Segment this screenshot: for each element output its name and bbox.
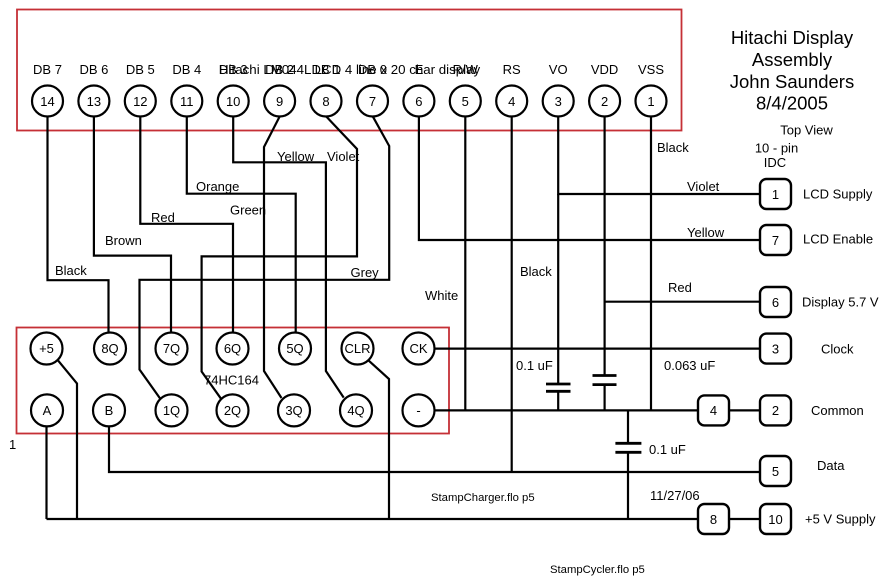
svg-text:1: 1 <box>9 437 16 452</box>
svg-text:14: 14 <box>40 94 54 109</box>
wire R/W white: pin5 to ground net <box>464 117 466 411</box>
capacitor C1 0.1 uF <box>546 384 571 391</box>
svg-text:1: 1 <box>772 187 779 202</box>
svg-text:A: A <box>43 403 52 418</box>
pin 5 circle <box>450 86 481 117</box>
svg-text:Top View: Top View <box>780 123 833 138</box>
wire VO to capacitor C1 <box>557 194 559 384</box>
wire VSS black: pin1 to ground net <box>650 117 652 411</box>
wire A to +5 net <box>45 426 47 519</box>
wire box 8 to box 10 <box>729 518 760 520</box>
svg-text:Violet: Violet <box>687 179 720 194</box>
svg-text:10: 10 <box>768 512 782 527</box>
svg-text:StampCycler.flo p5: StampCycler.flo p5 <box>550 564 645 576</box>
wire E yellow: pin6 to IDC box 7 <box>419 117 760 241</box>
svg-text:8: 8 <box>710 512 717 527</box>
svg-text:Hitachi LM044L LCD 4 line x 20: Hitachi LM044L LCD 4 line x 20 char disp… <box>219 62 480 77</box>
svg-text:2: 2 <box>601 94 608 109</box>
wire DB2 green: pin9 to 3Q <box>264 117 282 398</box>
svg-text:VSS: VSS <box>638 62 664 77</box>
pin 13 circle <box>78 86 109 117</box>
IDC connector pin box 2 <box>760 395 791 425</box>
wire ground net: minus pin to box 4 <box>434 409 698 411</box>
wire C3 to +5 net <box>627 452 629 519</box>
svg-text:Black: Black <box>520 264 552 279</box>
U1 pin 6Q <box>217 333 249 365</box>
svg-text:Grey: Grey <box>351 265 380 280</box>
pin 2 circle <box>589 86 620 117</box>
wire VDD red branch to IDC box 6 <box>605 301 760 303</box>
svg-text:+5: +5 <box>39 341 54 356</box>
svg-text:IDC: IDC <box>764 155 786 170</box>
wire RS black: pin4 to data net <box>511 117 513 473</box>
pin 11 circle <box>171 86 202 117</box>
svg-text:0.1 uF: 0.1 uF <box>516 358 553 373</box>
U1 pin CK <box>403 333 435 365</box>
svg-text:-: - <box>416 403 420 418</box>
svg-text:0.063 uF: 0.063 uF <box>664 358 715 373</box>
svg-text:Yellow: Yellow <box>687 225 725 240</box>
wire VO violet: pin3 to IDC box 1 <box>558 117 760 195</box>
svg-text:DB 6: DB 6 <box>79 62 108 77</box>
svg-text:Hitachi Display: Hitachi Display <box>731 27 854 48</box>
svg-text:VDD: VDD <box>591 62 618 77</box>
svg-text:8/4/2005: 8/4/2005 <box>756 93 828 114</box>
wire DB5 red: pin12 to 6Q <box>140 117 233 333</box>
svg-text:7Q: 7Q <box>163 341 180 356</box>
wire ground to capacitor C3 <box>627 410 629 443</box>
svg-text:6Q: 6Q <box>224 341 241 356</box>
svg-text:9: 9 <box>276 94 283 109</box>
U1 pin B <box>93 394 125 426</box>
wire B to data net box 5 <box>109 426 760 472</box>
wire DB7 black: pin14 to 8Q <box>48 117 109 333</box>
wire +5 net bus to box 8 <box>47 518 699 520</box>
wire CLR to +5 net <box>368 360 389 519</box>
IDC connector pin box 4 <box>698 395 729 425</box>
svg-text:6: 6 <box>415 94 422 109</box>
IDC connector pin box 8 <box>698 504 729 534</box>
wire DB3 yellow: pin10 to 4Q <box>233 117 344 398</box>
IDC connector pin box 1 <box>760 179 791 209</box>
svg-text:0.1 uF: 0.1 uF <box>649 442 686 457</box>
pin 14 circle <box>32 86 63 117</box>
svg-text:Black: Black <box>55 263 87 278</box>
wire DB4 orange: pin11 to 5Q <box>187 117 296 333</box>
pin 6 circle <box>403 86 434 117</box>
pin 7 circle <box>357 86 388 117</box>
U1 pin 5Q <box>279 333 311 365</box>
svg-text:13: 13 <box>87 94 101 109</box>
svg-text:+5 V Supply: +5 V Supply <box>805 512 876 527</box>
svg-text:Clock: Clock <box>821 341 854 356</box>
svg-text:4Q: 4Q <box>347 403 364 418</box>
U1 pin - <box>403 394 435 426</box>
svg-text:3Q: 3Q <box>285 403 302 418</box>
svg-text:1Q: 1Q <box>163 403 180 418</box>
wire DB6 brown: pin13 to 7Q <box>94 117 171 333</box>
wire VDD: pin2 down to capacitor C2 <box>603 117 605 376</box>
svg-text:7: 7 <box>772 233 779 248</box>
svg-text:Common: Common <box>811 403 864 418</box>
wire CK to IDC box 3 <box>434 348 760 350</box>
pin 9 circle <box>264 86 295 117</box>
svg-text:5: 5 <box>772 464 779 479</box>
svg-text:Orange: Orange <box>196 179 239 194</box>
schematic title block <box>730 27 854 114</box>
svg-text:6: 6 <box>772 295 779 310</box>
svg-text:Yellow: Yellow <box>277 149 315 164</box>
U1 pin 4Q <box>340 394 372 426</box>
svg-text:CK: CK <box>409 341 427 356</box>
svg-text:Brown: Brown <box>105 233 142 248</box>
svg-text:Data: Data <box>817 458 845 473</box>
svg-text:8Q: 8Q <box>101 341 118 356</box>
svg-text:CLR: CLR <box>344 341 370 356</box>
svg-text:Assembly: Assembly <box>752 49 833 70</box>
IDC connector pin box 3 <box>760 334 791 364</box>
IDC connector pin box 6 <box>760 287 791 317</box>
svg-text:Violet: Violet <box>327 149 360 164</box>
svg-text:VO: VO <box>549 62 568 77</box>
LCD connector J1 outline <box>17 10 682 131</box>
svg-text:Green: Green <box>230 203 266 218</box>
svg-text:1: 1 <box>647 94 654 109</box>
pin 8 circle <box>311 86 342 117</box>
IDC connector pin box 5 <box>760 456 791 486</box>
svg-text:74HC164: 74HC164 <box>204 373 259 388</box>
pin 3 circle <box>543 86 574 117</box>
svg-text:RS: RS <box>503 62 521 77</box>
svg-text:4: 4 <box>710 403 717 418</box>
U1 pin 3Q <box>278 394 310 426</box>
svg-text:3: 3 <box>555 94 562 109</box>
svg-text:8: 8 <box>322 94 329 109</box>
svg-text:3: 3 <box>772 341 779 356</box>
IDC connector heading <box>755 123 834 171</box>
svg-text:2Q: 2Q <box>224 403 241 418</box>
pin 1 circle <box>636 86 667 117</box>
U1 pin CLR <box>342 333 374 365</box>
svg-text:Red: Red <box>151 210 175 225</box>
svg-text:DB 4: DB 4 <box>172 62 201 77</box>
svg-text:11/27/06: 11/27/06 <box>650 488 700 503</box>
svg-text:John Saunders: John Saunders <box>730 71 854 92</box>
U1 pin 2Q <box>217 394 249 426</box>
wire DB1 violet: pin8 to 2Q <box>202 117 357 399</box>
svg-text:11: 11 <box>180 94 194 109</box>
pin 4 circle <box>496 86 527 117</box>
IDC connector pin box 10 <box>760 504 791 534</box>
svg-text:10 - pin: 10 - pin <box>755 141 798 156</box>
svg-text:LCD Supply: LCD Supply <box>803 187 873 202</box>
svg-text:5Q: 5Q <box>286 341 303 356</box>
U1 pin 7Q <box>156 333 188 365</box>
svg-text:White: White <box>425 288 458 303</box>
svg-text:Black: Black <box>657 140 689 155</box>
U1 pin A <box>31 394 63 426</box>
shift register U1 74HC164 outline <box>17 328 450 434</box>
svg-text:12: 12 <box>133 94 147 109</box>
svg-text:StampCharger.flo p5: StampCharger.flo p5 <box>431 492 535 504</box>
svg-text:DB 5: DB 5 <box>126 62 155 77</box>
U1 pin 1Q <box>156 394 188 426</box>
svg-text:10: 10 <box>226 94 240 109</box>
svg-text:5: 5 <box>462 94 469 109</box>
svg-text:4: 4 <box>508 94 515 109</box>
capacitor C2 0.063 uF <box>593 376 617 385</box>
svg-text:DB 7: DB 7 <box>33 62 62 77</box>
svg-text:LCD Enable: LCD Enable <box>803 232 873 247</box>
svg-text:7: 7 <box>369 94 376 109</box>
svg-text:Display 5.7 V: Display 5.7 V <box>802 295 879 310</box>
IDC connector pin box 7 <box>760 225 791 255</box>
svg-text:Red: Red <box>668 280 692 295</box>
wire DB0 grey: pin7 to 1Q <box>140 117 390 399</box>
pin 10 circle <box>218 86 249 117</box>
svg-text:B: B <box>105 403 114 418</box>
wire box 4 to box 2 <box>729 409 760 411</box>
wire C2 to ground net <box>603 385 605 411</box>
U1 pin 8Q <box>94 333 126 365</box>
svg-text:2: 2 <box>772 403 779 418</box>
wire C1 to ground net <box>557 391 559 410</box>
pin 12 circle <box>125 86 156 117</box>
U1 pin +5 <box>31 333 63 365</box>
capacitor C3 0.1 uF <box>615 443 641 452</box>
wire +5 pin to +5 net <box>58 360 78 519</box>
